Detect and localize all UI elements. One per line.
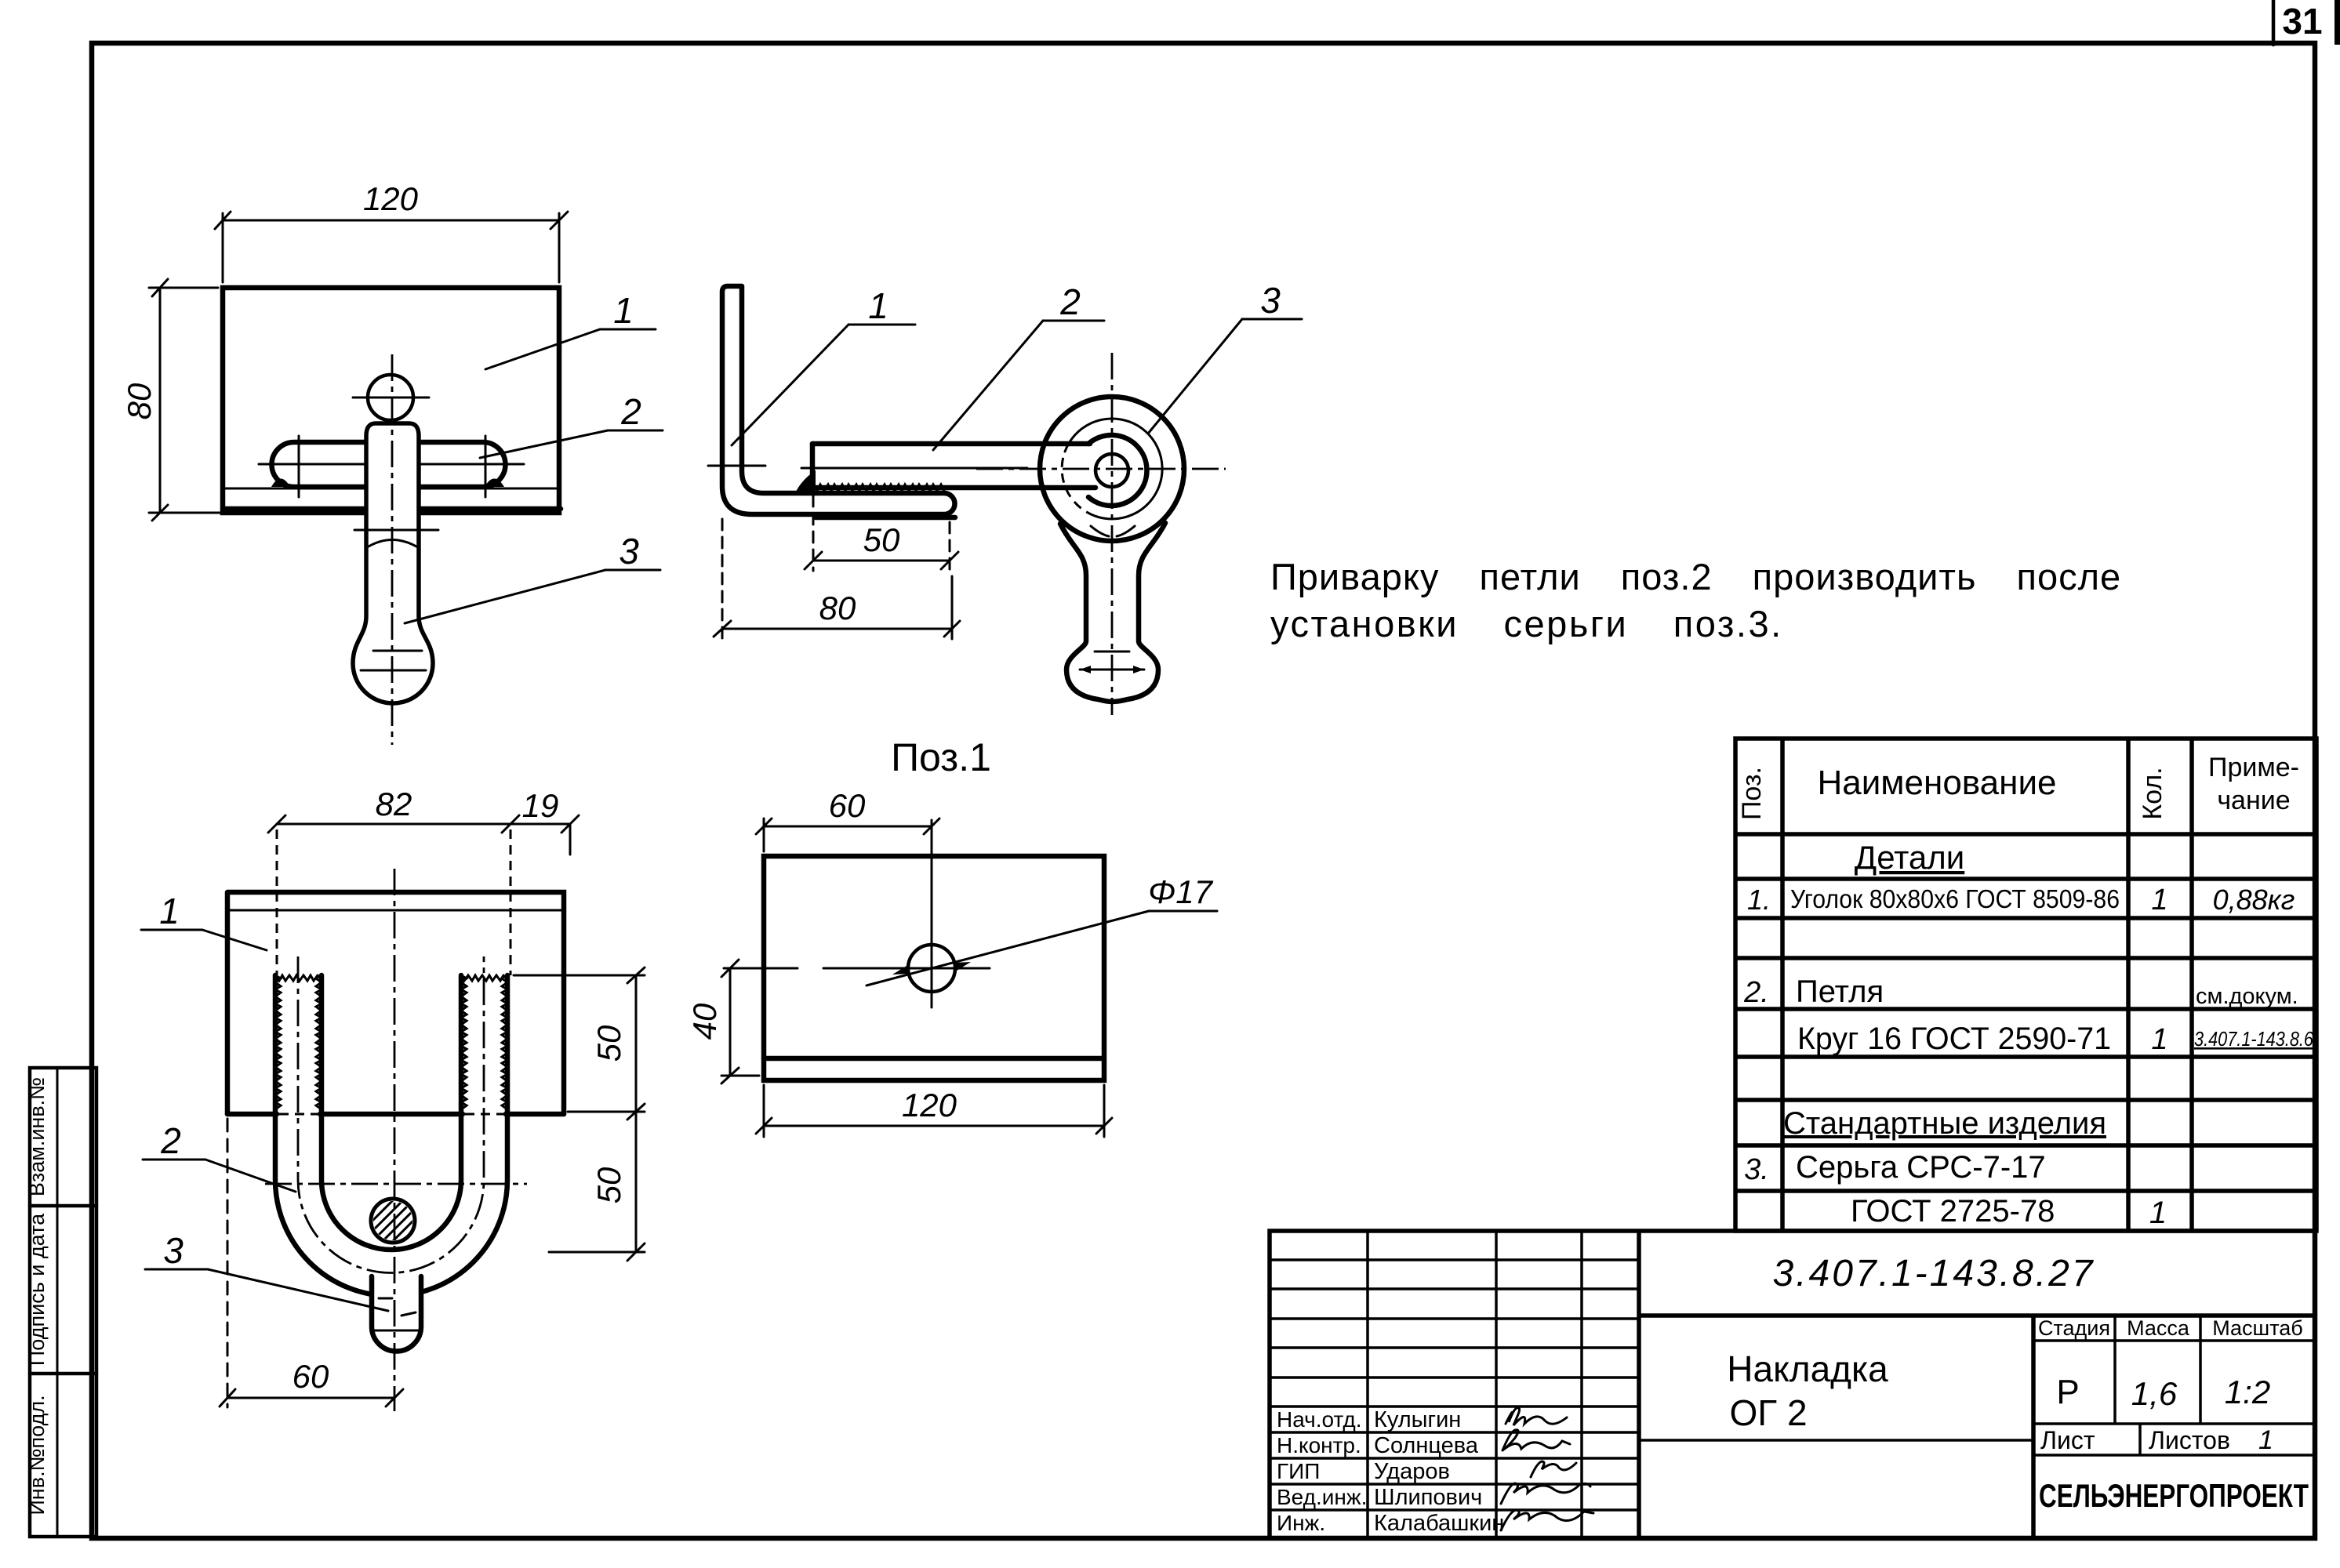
svg-text:1: 1 [159, 891, 180, 931]
view1 serga mid dash [373, 650, 422, 652]
svg-text:Накладка: Накладка [1727, 1348, 1888, 1389]
view3 plate bottom edge segments [227, 1112, 277, 1117]
svg-text:1: 1 [2151, 1023, 2167, 1056]
svg-text:Н.контр.: Н.контр. [1277, 1433, 1361, 1457]
title block list row [2033, 1424, 2315, 1455]
svg-text:установки серьги поз.3.: установки серьги поз.3. [1270, 603, 1783, 644]
view1 loop end centerline left [298, 436, 300, 497]
svg-text:Шлипович: Шлипович [1374, 1485, 1482, 1510]
view3 leg centerline extensions (dashed to dim) [276, 829, 278, 975]
view3 slot weld zigzag left leg [275, 975, 281, 1109]
svg-text:СЕЛЬЭНЕРГОПРОЕКТ: СЕЛЬЭНЕРГОПРОЕКТ [2039, 1477, 2309, 1514]
svg-text:Листов: Листов [2149, 1426, 2230, 1454]
svg-text:1: 1 [868, 285, 888, 326]
view3 vertical axis centerline [394, 869, 396, 1411]
svg-text:1: 1 [2151, 884, 2167, 916]
leader label 2 (view3) [205, 1160, 296, 1192]
svg-text:80: 80 [819, 590, 856, 626]
svg-text:чание: чание [2217, 786, 2290, 815]
svg-text:120: 120 [363, 180, 419, 217]
svg-text:Солнцева: Солнцева [1374, 1433, 1479, 1458]
title block name cell [1639, 1439, 2033, 1442]
view1 hole circle [368, 375, 413, 420]
dimension 120 (view4) [756, 1085, 1112, 1137]
view2 serga head outer circle [1040, 397, 1184, 541]
view1 loop (petlya) capsule [272, 442, 506, 487]
view1 loop end centerline right [485, 436, 487, 497]
svg-text:Кулыгин: Кулыгин [1374, 1407, 1461, 1432]
view3 tab cross line [372, 1330, 421, 1332]
svg-text:Взам.инв.№: Взам.инв.№ [25, 1077, 49, 1196]
view1 hole crosshair [353, 397, 429, 399]
svg-text:ОГ 2: ОГ 2 [1729, 1392, 1807, 1433]
view2 horizontal axis centerline [976, 468, 1226, 470]
svg-text:Ударов: Ударов [1374, 1459, 1450, 1484]
svg-text:120: 120 [902, 1087, 957, 1123]
svg-text:ГОСТ 2725-78: ГОСТ 2725-78 [1851, 1194, 2055, 1229]
view2 rod eye outer arc [1088, 435, 1146, 506]
svg-text:1,6: 1,6 [2131, 1375, 2178, 1412]
leader label 2 (view1) [480, 430, 608, 458]
svg-text:60: 60 [829, 787, 866, 824]
view4 vertical centerline [931, 820, 933, 1007]
view1 weld bead right [485, 479, 504, 488]
view3 serga tab outline [372, 1276, 421, 1352]
dimension 80 (view1) [149, 279, 221, 521]
leader diameter 17 (view4) [867, 911, 1149, 985]
svg-text:1: 1 [2149, 1196, 2167, 1230]
view3 hidden plate edge behind legs [279, 1113, 318, 1116]
view1 serga bulb line [361, 670, 426, 672]
svg-text:Круг 16 ГОСТ 2590-71: Круг 16 ГОСТ 2590-71 [1797, 1022, 2111, 1056]
view4 hole circle [908, 945, 955, 992]
view1 loop horizontal centerline [259, 463, 524, 466]
view1 shackle (serga) front outline [353, 423, 433, 703]
view3 plate top edge line [227, 909, 564, 912]
title block doc number cell [1639, 1313, 2315, 1318]
svg-text:50: 50 [590, 1025, 627, 1062]
dimension 50 (view2) [805, 495, 958, 571]
svg-text:40: 40 [686, 1003, 723, 1040]
svg-text:3.407.1-143.8.6: 3.407.1-143.8.6 [2194, 1027, 2313, 1051]
view4 horizontal centerline [724, 967, 798, 970]
view2 centerline cross at leg [708, 465, 765, 467]
svg-text:Калабашкин: Калабашкин [1374, 1511, 1504, 1536]
svg-text:Р: Р [2056, 1373, 2079, 1411]
dimension 40 (view4) [721, 960, 759, 1083]
dimension 50 50 (view3) [514, 967, 645, 1261]
leader label 1 (view1) [485, 329, 600, 369]
svg-text:2: 2 [1059, 281, 1081, 322]
view2 serga head inner circle [1065, 419, 1162, 519]
sheet number box [2272, 0, 2276, 45]
view3 tab hidden dashes [379, 1298, 392, 1300]
svg-text:60: 60 [292, 1358, 329, 1395]
svg-text:см.докум.: см.докум. [2196, 984, 2298, 1009]
view1 serga cross tick [354, 529, 438, 532]
leader label 3 (view1) [405, 570, 605, 623]
left margin stamp boxes [30, 1068, 96, 1537]
svg-text:Поз.: Поз. [1737, 767, 1767, 820]
view1 vertical axis centerline [391, 354, 394, 745]
dimension 82 / 19 (view3) [268, 815, 579, 855]
svg-text:Поз.1: Поз.1 [891, 735, 991, 779]
svg-text:0,88кг: 0,88кг [2213, 884, 2295, 916]
svg-text:Стандартные изделия: Стандартные изделия [1783, 1106, 2106, 1141]
scan edge artifact [2335, 0, 2340, 45]
view1 serga waist arc [369, 540, 416, 547]
view2 vertical axis centerline [1111, 353, 1114, 715]
leader label 2 (view2) [933, 321, 1043, 450]
view2 serga neck and bulb [1060, 523, 1165, 702]
svg-text:3: 3 [163, 1230, 183, 1271]
svg-text:Вед.инж.: Вед.инж. [1277, 1485, 1367, 1509]
svg-text:Φ17: Φ17 [1148, 873, 1214, 910]
svg-text:1: 1 [613, 290, 634, 331]
dimension 80 (view2) [714, 519, 960, 639]
svg-text:3: 3 [619, 531, 639, 572]
svg-text:Кол.: Кол. [2138, 767, 2167, 819]
view2 rod bottom line [812, 485, 1096, 491]
svg-text:1:2: 1:2 [2225, 1374, 2270, 1410]
view1 flange edge line [223, 488, 559, 490]
svg-text:19: 19 [522, 787, 559, 824]
view3 hatched bar section [371, 1199, 415, 1243]
svg-text:Масса: Масса [2127, 1316, 2190, 1340]
svg-text:Детали: Детали [1855, 839, 1965, 876]
svg-text:Инж.: Инж. [1277, 1511, 1325, 1535]
view2 rod left end cap [810, 444, 816, 488]
svg-text:Наименование: Наименование [1817, 764, 2056, 802]
view3 U-loop inner contour [322, 975, 461, 1250]
svg-text:50: 50 [590, 1167, 627, 1203]
view1 angle plate (front) [223, 288, 559, 513]
svg-text:Приме-: Приме- [2208, 753, 2299, 782]
svg-text:2: 2 [160, 1120, 181, 1161]
view2 bulb cross line with arrows [1080, 669, 1144, 671]
leader label 3 (view2) [1148, 319, 1242, 434]
view3 U-loop centerline arc [298, 956, 484, 1272]
view2 rod (petlya) top line [812, 441, 1090, 447]
view3 slot weld zigzag right leg [461, 975, 467, 1109]
svg-text:Петля: Петля [1796, 975, 1884, 1009]
svg-text:2.: 2. [1743, 976, 1769, 1009]
view2 hidden arc dashes [1062, 452, 1095, 516]
title block stadiya massa masshtab [1639, 1316, 2315, 1424]
view2 hidden hole bottom ticks [1091, 526, 1109, 536]
svg-text:Серьга СРС-7-17: Серьга СРС-7-17 [1796, 1150, 2046, 1185]
svg-text:2: 2 [620, 391, 641, 432]
svg-text:3: 3 [1260, 280, 1281, 321]
dimension 60 (view4) [756, 818, 939, 851]
svg-text:Стадия: Стадия [2038, 1316, 2110, 1340]
svg-text:Нач.отд.: Нач.отд. [1277, 1407, 1362, 1432]
title block grid left part [1270, 1231, 1639, 1537]
view4 bend line [764, 1056, 1104, 1062]
svg-text:Подпись и дата: Подпись и дата [25, 1213, 49, 1366]
svg-text:80: 80 [121, 383, 158, 419]
svg-text:Приварку петли поз.2 производи: Приварку петли поз.2 производить после [1270, 556, 2121, 597]
view3 U-loop outer contour [275, 975, 507, 1296]
svg-text:3.407.1-143.8.27: 3.407.1-143.8.27 [1773, 1253, 2095, 1294]
dimension 120 (view1) [215, 212, 568, 282]
svg-text:Инв.№подл.: Инв.№подл. [25, 1395, 49, 1515]
view2 rod centerline thin [801, 467, 1027, 470]
svg-text:Масштаб: Масштаб [2212, 1316, 2303, 1340]
leader label 1 (view3) [202, 930, 267, 950]
view2 rod eye inner circle [1096, 454, 1128, 487]
view2 shank tick [1095, 651, 1129, 653]
svg-text:82: 82 [376, 786, 412, 822]
title block outer [1270, 1231, 2315, 1538]
svg-text:Лист: Лист [2040, 1426, 2095, 1454]
view3 horizontal centerline at bend [265, 1183, 527, 1185]
view3 serga tab white fill [372, 1276, 421, 1352]
view2 angle profile [722, 286, 955, 514]
view3 plate outline [227, 892, 564, 1114]
spec table grid [1735, 739, 2316, 1231]
svg-text:ГИП: ГИП [1277, 1459, 1320, 1483]
signature squiggles [1501, 1408, 1593, 1530]
svg-text:31: 31 [2282, 1, 2322, 42]
view4 plate rectangle [764, 856, 1104, 1080]
svg-text:3.: 3. [1744, 1153, 1769, 1186]
view2 weld bead at rod end [795, 470, 816, 493]
view1 weld bead left [271, 479, 290, 488]
svg-text:1: 1 [2258, 1425, 2273, 1455]
view2 weld seam zigzag under rod [817, 485, 944, 491]
svg-text:50: 50 [863, 521, 900, 558]
svg-text:Уголок 80х80х6 ГОСТ 8509-86: Уголок 80х80х6 ГОСТ 8509-86 [1790, 884, 2120, 913]
svg-text:1.: 1. [1747, 884, 1771, 916]
leader label 3 (view3) [208, 1269, 388, 1311]
leader label 1 (view2) [732, 325, 848, 445]
dimension 60 (view3) [220, 1119, 403, 1407]
